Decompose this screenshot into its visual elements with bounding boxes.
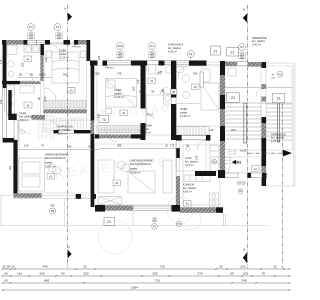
living2 sofa/dining: [98, 160, 114, 193]
flags: [68, 13, 292, 264]
svg-text:A1: A1: [26, 103, 30, 107]
svg-text:P4: P4: [29, 25, 33, 29]
svg-text:A2: A2: [69, 89, 73, 93]
svg-text:25: 25: [11, 264, 15, 268]
svg-text:4,00 m²: 4,00 m²: [183, 189, 192, 193]
svg-text:1,26 m²: 1,26 m²: [271, 139, 280, 143]
right unit bottom wall: [105, 205, 133, 210]
svg-text:ULAZ: ULAZ: [240, 149, 247, 153]
svg-text:265: 265: [39, 271, 44, 275]
svg-text:Z2: Z2: [231, 96, 235, 100]
soba2 closet comb band: [97, 126, 140, 133]
svg-text:SOBA: SOBA: [114, 88, 121, 92]
faint landscaping circles: [98, 197, 201, 254]
svg-text:Z1: Z1: [231, 50, 235, 54]
svg-text:35: 35: [7, 264, 11, 268]
svg-text:Z1: Z1: [277, 96, 281, 100]
svg-text:parket: parket: [45, 161, 52, 165]
svg-text:parket: parket: [59, 52, 66, 56]
svg-text:300: 300: [231, 128, 236, 132]
party wall: [91, 66, 95, 121]
svg-text:725: 725: [159, 264, 164, 268]
svg-text:220: 220: [150, 54, 155, 58]
terrace tables: [99, 197, 122, 206]
svg-text:791: 791: [155, 278, 160, 282]
svg-text:220: 220: [118, 54, 123, 58]
svg-text:P6: P6: [51, 209, 55, 213]
entry south walls: [195, 171, 216, 176]
svg-text:2,00 m²: 2,00 m²: [58, 132, 67, 136]
svg-text:600: 600: [152, 219, 157, 223]
inner vertical walls right unit: [141, 61, 146, 109]
svg-text:P2: P2: [56, 25, 60, 29]
svg-text:223: 223: [240, 264, 245, 268]
right unit walls: [176, 135, 182, 141]
svg-text:A2: A2: [122, 111, 126, 115]
svg-text:ULAZ: ULAZ: [185, 156, 192, 160]
svg-text:Z1: Z1: [214, 49, 218, 53]
svg-text:P1a: P1a: [118, 44, 123, 48]
svg-text:175: 175: [0, 59, 3, 64]
svg-text:HODNIK: HODNIK: [142, 124, 152, 128]
interior dimension rows: [18, 78, 180, 150]
soba1 bed: [52, 52, 79, 83]
Z / A boxes: [68, 46, 285, 225]
svg-text:SOBA: SOBA: [180, 107, 187, 111]
svg-text:213: 213: [136, 79, 140, 84]
svg-text:A2: A2: [49, 175, 53, 179]
svg-text:82: 82: [61, 271, 65, 275]
bathroom tile grid: [39, 116, 85, 140]
svg-text:14,35 m²: 14,35 m²: [180, 114, 190, 118]
soba1 closet comb band: [44, 101, 87, 109]
soba1 south wall: [43, 109, 86, 113]
svg-text:B: B: [243, 8, 245, 12]
svg-text:25: 25: [83, 264, 87, 268]
svg-text:4,30 m²: 4,30 m²: [168, 50, 177, 54]
svg-text:213: 213: [209, 128, 214, 132]
svg-text:parket: parket: [130, 167, 137, 171]
svg-text:+40 cm: +40 cm: [72, 45, 81, 49]
svg-text:440: 440: [42, 264, 47, 268]
svg-text:BLAGOVAONICA: BLAGOVAONICA: [130, 162, 151, 166]
svg-text:DNEVNI BORAVAK /: DNEVNI BORAVAK /: [45, 153, 69, 157]
east unit wall x220: [220, 75, 225, 95]
right top: corridor / spremiste: [220, 61, 225, 75]
svg-text:25: 25: [2, 264, 6, 268]
svg-text:B: B: [244, 248, 246, 252]
svg-text:213: 213: [97, 55, 101, 60]
svg-text:65: 65: [230, 271, 234, 275]
svg-text:A2: A2: [194, 85, 198, 89]
top wall right unit y60.5: [90, 61, 98, 66]
svg-text:20,08 m²: 20,08 m²: [130, 171, 140, 175]
living1 bottom blocks: [76, 194, 81, 199]
svg-text:Vu: Vu: [213, 160, 217, 164]
svg-text:P1: P1: [189, 52, 193, 56]
kitchen2 counters: [210, 145, 219, 171]
svg-text:25: 25: [219, 264, 223, 268]
svg-text:11,50 m²: 11,50 m²: [114, 95, 124, 99]
svg-text:275: 275: [117, 72, 122, 76]
windows (white boxes with frame): [3, 40, 262, 210]
svg-text:150: 150: [43, 96, 47, 101]
svg-text:80: 80: [172, 90, 176, 94]
svg-text:ULAZ: ULAZ: [20, 111, 27, 115]
svg-text:78: 78: [261, 271, 265, 275]
svg-text:10,10: 10,10: [39, 73, 46, 77]
svg-text:175: 175: [170, 144, 175, 148]
thin room outline construction lines: [0, 42, 295, 226]
svg-text:60: 60: [4, 271, 8, 275]
svg-text:parket: parket: [180, 110, 187, 114]
svg-text:A1: A1: [26, 57, 30, 61]
soba2 bed: [106, 79, 137, 108]
svg-text:223: 223: [21, 62, 25, 67]
corridor fixtures: [228, 68, 236, 76]
svg-text:BLAGOVAONICA: BLAGOVAONICA: [45, 156, 66, 160]
svg-text:A: A: [68, 245, 70, 249]
soba3 / bed: [201, 69, 210, 82]
watermark: [54, 103, 170, 181]
svg-text:213: 213: [221, 103, 225, 108]
svg-text:4,10 m²: 4,10 m²: [185, 163, 194, 167]
svg-text:15,95 m²: 15,95 m²: [45, 165, 55, 169]
svg-text:ker. pločice: ker. pločice: [168, 46, 182, 50]
svg-text:130: 130: [24, 144, 29, 148]
axis circles: [28, 24, 283, 230]
ticks row2: [2, 275, 4, 277]
svg-text:240: 240: [67, 145, 72, 149]
svg-text:285: 285: [117, 144, 122, 148]
svg-text:2,40 m²: 2,40 m²: [252, 42, 261, 46]
top wall left unit: [2, 40, 7, 45]
B1 arrow marker: [232, 160, 236, 165]
svg-text:11,20 m²: 11,20 m²: [59, 56, 69, 60]
svg-text:A: A: [64, 7, 66, 11]
svg-text:DNEVNI BORAVAK /: DNEVNI BORAVAK /: [130, 159, 154, 163]
svg-text:A2: A2: [115, 181, 119, 185]
svg-text:A1: A1: [150, 79, 154, 83]
svg-text:KUPAONICA: KUPAONICA: [168, 43, 183, 47]
svg-text:P4: P4: [150, 44, 154, 48]
svg-text:2,70 m²: 2,70 m²: [142, 131, 151, 135]
section lines: [67, 5, 282, 268]
kitchen1: [7, 85, 15, 114]
svg-text:300: 300: [50, 204, 55, 208]
svg-text:220: 220: [29, 35, 34, 39]
svg-text:ker. pločice: ker. pločice: [185, 159, 199, 163]
svg-text:ker. pločice: ker. pločice: [183, 186, 197, 190]
svg-text:265: 265: [152, 271, 157, 275]
svg-text:95 10: 95 10: [147, 113, 154, 117]
living1 sofa/table: [19, 158, 45, 191]
svg-text:465: 465: [44, 278, 49, 282]
svg-text:Z1: Z1: [107, 220, 111, 224]
svg-text:210: 210: [195, 155, 199, 160]
svg-text:A1: A1: [254, 167, 258, 171]
svg-text:P7: P7: [153, 224, 157, 228]
svg-text:213: 213: [44, 57, 48, 62]
svg-text:25: 25: [273, 264, 277, 268]
svg-text:255: 255: [132, 86, 136, 91]
svg-text:276: 276: [197, 271, 202, 275]
svg-text:2,90 m²: 2,90 m²: [20, 118, 29, 122]
svg-text:250: 250: [83, 271, 88, 275]
svg-text:P9: P9: [177, 222, 181, 226]
ticks row1: [2, 268, 4, 270]
svg-text:305: 305: [8, 165, 12, 170]
room labels: [20, 35, 287, 193]
door arcs: [17, 45, 266, 174]
left unit mid wall y130: [54, 130, 59, 133]
vent symbols: [237, 181, 245, 185]
stairwell treads: [225, 88, 292, 141]
entry steps band: [178, 127, 209, 136]
svg-text:220: 220: [57, 35, 62, 39]
furniture light gray: [7, 45, 236, 226]
svg-text:105: 105: [243, 271, 248, 275]
left exterior wall: [3, 44, 7, 88]
svg-text:248: 248: [241, 278, 246, 282]
svg-text:ker. pločice: ker. pločice: [58, 128, 72, 132]
svg-text:P4: P4: [240, 45, 244, 49]
svg-text:parket: parket: [114, 92, 121, 96]
svg-text:313: 313: [0, 99, 3, 104]
svg-text:250: 250: [193, 72, 198, 76]
svg-text:175: 175: [158, 70, 163, 74]
svg-text:ker. pločice: ker. pločice: [20, 115, 34, 119]
bath1 fixtures: [7, 46, 17, 55]
bathroom1 inner walls: [41, 44, 44, 55]
svg-text:60: 60: [4, 278, 8, 282]
svg-text:250: 250: [240, 55, 245, 59]
svg-text:parket: parket: [142, 127, 149, 131]
ticks row4: [2, 289, 4, 291]
svg-text:+40 cm: +40 cm: [105, 65, 114, 69]
svg-text:B1: B1: [237, 161, 241, 165]
svg-text:1564: 1564: [131, 285, 138, 289]
wc2 fixtures: [149, 65, 156, 75]
svg-text:118: 118: [17, 271, 22, 275]
svg-text:KUHINJA: KUHINJA: [183, 183, 194, 187]
svg-text:73: 73: [102, 118, 106, 122]
svg-text:300: 300: [95, 72, 100, 76]
stairwell west wall x261.5: [262, 84, 267, 89]
ticks row3: [2, 282, 4, 284]
svg-text:A1: A1: [186, 202, 190, 206]
svg-text:SOBA: SOBA: [59, 49, 66, 53]
svg-text:KUPAONICA: KUPAONICA: [58, 125, 73, 129]
